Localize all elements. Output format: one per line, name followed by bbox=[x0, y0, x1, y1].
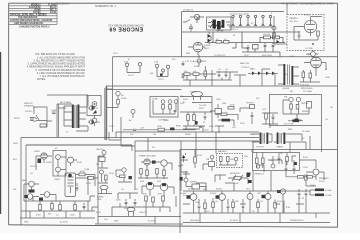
svg-text:DEPTH: DEPTH bbox=[301, 103, 308, 105]
svg-text:470K: 470K bbox=[36, 215, 41, 217]
wire power tube drops bbox=[118, 193, 163, 207]
svg-text:BRN: BRN bbox=[288, 129, 293, 131]
wire m links bbox=[183, 112, 205, 126]
resistor Rb2 bbox=[146, 170, 149, 176]
tube V15 bbox=[280, 189, 285, 194]
svg-text:150 150: 150 150 bbox=[263, 34, 271, 36]
capacitor dark bar C51 bbox=[293, 120, 300, 123]
wire OT right leads bbox=[292, 134, 306, 150]
power tube top cap bbox=[68, 174, 72, 178]
svg-text:450V: 450V bbox=[183, 99, 188, 101]
svg-text:100K 1K: 100K 1K bbox=[139, 212, 147, 214]
node blob r2 bbox=[294, 162, 297, 165]
svg-text:470K: 470K bbox=[80, 171, 85, 173]
transformer T1 core bbox=[75, 105, 76, 128]
node blob v14 bbox=[262, 195, 266, 198]
svg-text:22K: 22K bbox=[235, 201, 239, 203]
svg-text:1M VOL: 1M VOL bbox=[30, 166, 38, 168]
svg-text:SPEAKER: SPEAKER bbox=[24, 105, 34, 108]
resistor R50 bbox=[317, 31, 320, 36]
wire lamp pair1 link bbox=[127, 69, 140, 73]
svg-text:250K: 250K bbox=[77, 162, 82, 164]
svg-text:6L6GC: 6L6GC bbox=[210, 193, 217, 195]
svg-text:.022: .022 bbox=[262, 109, 267, 111]
svg-text:6.8K: 6.8K bbox=[140, 181, 145, 183]
svg-text:CHOKE: CHOKE bbox=[282, 88, 290, 90]
tube V4 right bbox=[300, 57, 326, 82]
svg-text:10%: 10% bbox=[244, 156, 248, 158]
svg-text:B+ 300V: B+ 300V bbox=[60, 222, 68, 224]
wire rm10 bbox=[194, 150, 196, 169]
svg-text:VIBRATO: VIBRATO bbox=[289, 17, 298, 20]
pot arrow dark bbox=[93, 110, 97, 114]
svg-text:220K: 220K bbox=[116, 200, 121, 202]
wire connector links bbox=[94, 106, 96, 126]
wire V5 leads bbox=[188, 47, 205, 55]
svg-text:6L6GC: 6L6GC bbox=[216, 189, 223, 191]
svg-text:1M: 1M bbox=[48, 214, 51, 216]
svg-text:470K: 470K bbox=[303, 157, 308, 159]
tube V1B bbox=[68, 157, 74, 163]
tube V10 power bbox=[160, 183, 168, 191]
labels input bbox=[14, 101, 100, 134]
wire m6 links bbox=[262, 113, 278, 128]
tube V16 bbox=[313, 169, 319, 175]
wire shield lines bbox=[57, 104, 72, 137]
svg-text:6.8: 6.8 bbox=[285, 74, 289, 76]
wire blob leads bbox=[292, 119, 302, 121]
extra comps tube row bbox=[196, 171, 306, 213]
wire preamp wiring bbox=[283, 100, 309, 119]
resistor Rc1 bbox=[162, 105, 165, 110]
svg-text:2.2M: 2.2M bbox=[109, 126, 114, 128]
svg-text:1W: 1W bbox=[153, 134, 156, 136]
lamp s2 bbox=[56, 167, 61, 172]
svg-text:15K: 15K bbox=[230, 159, 234, 161]
wire B+ top rail bbox=[182, 11, 285, 13]
speaker jack dark 1 bbox=[315, 189, 324, 192]
resistor R30 bbox=[184, 73, 190, 76]
wire chassis bottom-left vertical bbox=[20, 138, 22, 225]
svg-text:BIAS: BIAS bbox=[250, 68, 255, 71]
node dot bbox=[312, 43, 314, 45]
svg-text:500K: 500K bbox=[234, 183, 239, 185]
wire divider vertical right bbox=[251, 150, 253, 153]
resistor R41 bbox=[224, 41, 230, 44]
wire tube drops bbox=[194, 198, 285, 213]
resistor R60 bbox=[117, 100, 120, 105]
resistor Rm10 bbox=[194, 157, 197, 163]
svg-text:6.3V: 6.3V bbox=[290, 56, 295, 58]
svg-text:BLK: BLK bbox=[13, 159, 17, 161]
winding primary bbox=[283, 64, 285, 85]
potentiometer arrow 1 bbox=[232, 175, 236, 181]
wire osc wiring bbox=[294, 27, 318, 41]
dark mark m17 bbox=[247, 173, 250, 178]
tube V7 small bbox=[311, 52, 316, 57]
lamp L2 col bbox=[100, 170, 104, 174]
wire ps mid links bbox=[232, 32, 248, 49]
svg-text:BIAS ADJ: BIAS ADJ bbox=[218, 150, 227, 153]
capacitor C29 bbox=[189, 24, 193, 31]
transformer T4 primary bbox=[277, 133, 279, 145]
wire bottom wiring bbox=[24, 156, 90, 201]
capacitor Cv15a bbox=[285, 165, 288, 172]
capacitor C26 bbox=[182, 61, 185, 66]
svg-text:BLU: BLU bbox=[250, 134, 254, 136]
svg-text:47K: 47K bbox=[256, 98, 260, 100]
capacitor Cr1 bbox=[298, 189, 301, 197]
capacitor Cr2 bbox=[305, 189, 308, 197]
svg-text:500PF: 500PF bbox=[46, 162, 53, 164]
border frame bottom bbox=[9, 225, 338, 227]
svg-text:SW: SW bbox=[96, 164, 99, 166]
power tube internals bbox=[68, 174, 74, 193]
wire left of box bbox=[274, 16, 287, 44]
wire socket wiring bbox=[58, 157, 66, 176]
wire pot links bbox=[228, 178, 248, 184]
wire tubes rail bbox=[183, 191, 310, 198]
resistor Rb1 bbox=[140, 169, 143, 175]
lamp NE2 bbox=[272, 26, 276, 30]
wire nested corner 1 bbox=[116, 132, 259, 138]
pot VR1 arrow bbox=[36, 115, 39, 120]
svg-text:X: X bbox=[271, 13, 273, 15]
resistor Rcol bbox=[105, 175, 108, 180]
svg-text:OUTPUT: OUTPUT bbox=[256, 147, 265, 149]
svg-text:475V: 475V bbox=[244, 55, 249, 57]
wire lamp pair2 link bbox=[157, 70, 168, 77]
tube V6 internals bbox=[306, 20, 315, 32]
labels preamp box bbox=[284, 97, 309, 126]
svg-text:INTENSITY: INTENSITY bbox=[230, 173, 241, 175]
svg-text:6.3V: 6.3V bbox=[124, 62, 129, 64]
node blob bbox=[195, 121, 198, 125]
resistor R1 bbox=[40, 124, 47, 127]
labels mid lower bbox=[180, 155, 241, 195]
svg-text:6.3V TO ALL HEATERS: 6.3V TO ALL HEATERS bbox=[185, 60, 207, 63]
svg-text:470K: 470K bbox=[157, 126, 162, 128]
wire lower links bbox=[183, 126, 224, 133]
resistor Rb4 bbox=[163, 170, 166, 176]
fuse F1 holder bbox=[116, 91, 120, 95]
svg-text:20MFD: 20MFD bbox=[190, 92, 197, 94]
wire T1 leads left bbox=[64, 106, 72, 126]
svg-text:YEL: YEL bbox=[13, 189, 18, 191]
resistor R70 bbox=[221, 113, 227, 116]
svg-text:5U4GB: 5U4GB bbox=[204, 45, 211, 47]
svg-text:A PHOTOFACT STANDARD: A PHOTOFACT STANDARD bbox=[281, 3, 313, 6]
component row: dark blob bbox=[170, 128, 175, 131]
svg-text:.047: .047 bbox=[140, 128, 145, 130]
labels mid boxes bbox=[121, 94, 169, 122]
diode D1b bbox=[208, 39, 211, 43]
lamp r2 bbox=[234, 157, 238, 161]
wire row bbox=[215, 114, 238, 120]
diode D5 bbox=[277, 40, 280, 43]
tube V5 rectifier bbox=[193, 42, 203, 52]
labels bottom center bbox=[96, 149, 162, 223]
capacitor Ct1 bbox=[198, 203, 201, 210]
tube V2C bbox=[44, 192, 50, 198]
border frame right bbox=[337, 3, 339, 227]
wire crossing drops bbox=[148, 132, 310, 157]
tube V5 internals bbox=[195, 42, 201, 49]
tube V8A triode bbox=[144, 159, 150, 165]
capacitor C32 bbox=[264, 43, 267, 49]
capacitor C7 bbox=[76, 183, 79, 191]
transformer T1 secondary bbox=[77, 105, 79, 129]
transformer T4 secondary bbox=[283, 133, 285, 145]
svg-text:CHASSIS PHOTOS PAGE 2: CHASSIS PHOTOS PAGE 2 bbox=[19, 25, 50, 28]
svg-text:SPEED: SPEED bbox=[302, 111, 309, 113]
box preamp enclosure bbox=[270, 95, 322, 126]
wire sub box bbox=[219, 161, 236, 165]
svg-text:16 OHM: 16 OHM bbox=[302, 131, 310, 133]
svg-text:470K: 470K bbox=[277, 201, 282, 203]
dashed sub box bbox=[217, 154, 243, 168]
svg-text:ERIE: ERIE bbox=[176, 126, 181, 128]
mid right tube section (x 300-330, y 150-190) bbox=[305, 169, 324, 186]
svg-text:OUT: OUT bbox=[246, 189, 251, 191]
wire dm1 bbox=[184, 153, 186, 162]
notes list bbox=[27, 53, 86, 81]
labels bottom left bbox=[22, 148, 91, 224]
svg-text:V6 .05: V6 .05 bbox=[304, 15, 311, 17]
diode Dm1 bbox=[182, 155, 186, 158]
svg-text:470K: 470K bbox=[230, 105, 235, 107]
resistor Rb3 bbox=[156, 169, 159, 175]
svg-text:OUT: OUT bbox=[257, 193, 262, 195]
svg-text:.01 470K: .01 470K bbox=[305, 48, 314, 50]
lamp small bbox=[131, 110, 135, 114]
svg-text:6L6GC: 6L6GC bbox=[188, 189, 195, 191]
capacitor C30C bbox=[247, 15, 250, 26]
wire drops to rail86 bbox=[190, 75, 275, 86]
component box p3 bbox=[307, 102, 312, 109]
wire section divider bbox=[180, 150, 338, 234]
wire m5 link bbox=[240, 108, 252, 124]
wire res drops bbox=[138, 174, 168, 179]
svg-text:47: 47 bbox=[203, 122, 206, 124]
svg-text:PHASE INV 12AU7: PHASE INV 12AU7 bbox=[139, 155, 157, 158]
lamp c1 bbox=[161, 100, 165, 104]
wire to preamp bbox=[47, 95, 89, 131]
svg-text:GND: GND bbox=[114, 221, 119, 223]
svg-text:SCHEMATIC NO. 1: SCHEMATIC NO. 1 bbox=[95, 5, 116, 8]
svg-text:PLUG: PLUG bbox=[319, 181, 325, 183]
wire lamp drop bbox=[132, 114, 134, 119]
svg-text:470K: 470K bbox=[96, 212, 101, 214]
capacitor C30E bbox=[262, 15, 265, 26]
lamp c2 bbox=[168, 100, 172, 104]
capacitor C1 bbox=[52, 112, 56, 113]
wire lower rails bbox=[20, 176, 95, 218]
svg-text:47: 47 bbox=[128, 59, 131, 61]
svg-text:470K: 470K bbox=[197, 155, 202, 157]
wire heater rail2 bbox=[106, 89, 182, 91]
wire power tube leads bbox=[142, 186, 174, 196]
wire ps drops bbox=[242, 48, 280, 57]
wire bottom rail right bbox=[183, 204, 330, 223]
svg-text:VC: VC bbox=[302, 138, 305, 140]
title block table bbox=[9, 3, 57, 24]
node blob V8 bbox=[152, 161, 156, 164]
resistor R45 bbox=[302, 72, 305, 78]
wire link row bbox=[216, 72, 246, 78]
tube V12 bbox=[219, 194, 226, 201]
tube V2B bbox=[27, 194, 33, 200]
svg-text:6V6: 6V6 bbox=[158, 194, 162, 196]
component box ps1 bbox=[253, 45, 259, 50]
wire m16 links bbox=[183, 171, 206, 191]
svg-text:TO V1B: TO V1B bbox=[199, 105, 207, 107]
svg-text:6V6: 6V6 bbox=[143, 194, 147, 196]
wire c51 leads bbox=[288, 120, 303, 122]
transformer T1 primary bbox=[72, 105, 74, 129]
resistor Rr1 bbox=[220, 157, 223, 162]
wire V1B leads bbox=[71, 160, 78, 166]
resistor R10 bbox=[59, 205, 62, 211]
svg-text:6V6GT: 6V6GT bbox=[185, 134, 192, 136]
svg-text:ON-OFF: ON-OFF bbox=[216, 30, 224, 32]
lamp PL3 bbox=[155, 64, 158, 70]
lamp b1 bbox=[122, 168, 126, 172]
wire top rail bbox=[26, 145, 132, 151]
lamp s1 bbox=[56, 155, 61, 160]
wire L1 stem bbox=[103, 155, 105, 158]
svg-text:SW: SW bbox=[150, 73, 153, 75]
tube V5A rectifier small bbox=[194, 14, 199, 19]
box twin socket bbox=[53, 151, 66, 177]
svg-text:.02: .02 bbox=[121, 189, 125, 191]
wire C50 leads bbox=[218, 120, 234, 126]
svg-text:7. ALL VOLTAGES SHOWN POSITIVE: 7. ALL VOLTAGES SHOWN POSITIVE DC bbox=[39, 75, 85, 78]
wire long rail y141 bbox=[135, 141, 259, 151]
svg-text:12AX7: 12AX7 bbox=[34, 150, 41, 153]
wire feed vertical bbox=[286, 3, 288, 14]
capacitor dark C5 bbox=[29, 190, 35, 193]
svg-text:OSC 6C4: OSC 6C4 bbox=[289, 21, 298, 23]
svg-text:FOOT SW: FOOT SW bbox=[284, 124, 293, 126]
wire fuse leads bbox=[198, 55, 200, 66]
svg-text:VIB: VIB bbox=[284, 97, 288, 99]
lamp PL4 bbox=[166, 65, 169, 71]
capacitor Ct3 bbox=[242, 203, 245, 210]
node blob bus bbox=[180, 177, 183, 181]
wire rail bottom of PS bbox=[113, 56, 338, 58]
resistor Rr5 bbox=[232, 202, 235, 208]
svg-text:BIAS -52V: BIAS -52V bbox=[240, 62, 250, 65]
wire T1 leads right bbox=[79, 107, 88, 126]
component box m11 bbox=[209, 162, 215, 167]
svg-text:.02: .02 bbox=[135, 189, 139, 191]
svg-text:GND: GND bbox=[24, 222, 29, 224]
capacitor Ct2 bbox=[227, 203, 230, 210]
border frame top bbox=[9, 2, 338, 4]
svg-text:T1: T1 bbox=[66, 132, 69, 134]
svg-text:TM-15008-A: TM-15008-A bbox=[56, 2, 70, 5]
potentiometer arrow 2 bbox=[239, 175, 243, 181]
svg-text:220K: 220K bbox=[310, 185, 315, 187]
wire b links bbox=[116, 170, 132, 182]
component row: capacitor2 bbox=[199, 127, 202, 128]
wire fuse drop bbox=[107, 96, 118, 108]
wire rail mid bbox=[182, 31, 300, 33]
wire bridge links bbox=[248, 69, 278, 80]
wire rail y89 stub bbox=[106, 88, 113, 90]
svg-text:.05: .05 bbox=[225, 69, 229, 71]
capacitor dark blob bbox=[295, 119, 299, 122]
node blob v11 bbox=[187, 195, 191, 198]
connector circle bottom bbox=[92, 118, 97, 123]
tube V4 internals bbox=[312, 57, 320, 70]
svg-text:330K: 330K bbox=[209, 126, 214, 128]
svg-text:.05: .05 bbox=[218, 69, 222, 71]
wire V2 leads bbox=[24, 184, 39, 201]
svg-text:40 40 20 20 10 450V: 40 40 20 20 10 450V bbox=[230, 14, 249, 16]
wire can legs col bbox=[98, 189, 112, 193]
resistor Rv15 bbox=[298, 176, 304, 179]
svg-text:8 OHM: 8 OHM bbox=[325, 190, 332, 192]
svg-text:.05 .05: .05 .05 bbox=[298, 198, 305, 200]
component row y130: capacitor bbox=[133, 129, 136, 130]
connector marks bbox=[94, 103, 96, 105]
nested chassis corner lines bbox=[21, 117, 310, 225]
resistor Rp2 bbox=[296, 105, 299, 110]
resistor Rb6 bbox=[145, 196, 148, 201]
scattered value labels for texture bbox=[13, 13, 333, 221]
svg-text:TREMOLO: TREMOLO bbox=[254, 174, 264, 176]
wire V5A stem bbox=[190, 17, 204, 23]
resistor R32 bbox=[204, 71, 207, 76]
labels bottom right bbox=[188, 150, 332, 222]
wire V4 bottom bbox=[300, 70, 320, 82]
wire center rails bbox=[98, 151, 180, 224]
component box m2 bbox=[215, 109, 222, 114]
svg-text:2A: 2A bbox=[121, 94, 124, 97]
capacitor C27 bbox=[218, 71, 221, 78]
wire mid rails bbox=[180, 97, 212, 133]
svg-text:COND: COND bbox=[51, 110, 57, 112]
wire right column bbox=[90, 196, 98, 211]
svg-text:40: 40 bbox=[233, 35, 236, 37]
svg-text:120V: 120V bbox=[109, 173, 114, 175]
resistor Rr6 bbox=[257, 202, 260, 208]
connector dot P1 fill bbox=[92, 106, 94, 110]
resistor Rv16 bbox=[307, 176, 313, 179]
svg-text:.05: .05 bbox=[215, 201, 219, 203]
resistor Rb7 bbox=[152, 197, 155, 202]
box bottom right enclosure bbox=[253, 153, 300, 171]
svg-text:TO PIN 8 V5: TO PIN 8 V5 bbox=[214, 55, 226, 57]
box speaker relay bbox=[87, 96, 101, 116]
resistor R8 bbox=[39, 205, 42, 211]
wire inside panel bbox=[153, 100, 176, 114]
labels lamps bbox=[124, 62, 165, 82]
tube V11 bbox=[190, 194, 197, 201]
capacitor C33 bbox=[272, 43, 275, 49]
svg-text:RECT: RECT bbox=[204, 48, 210, 50]
component row: wire bbox=[123, 126, 203, 132]
svg-text:PHONO: PHONO bbox=[25, 111, 33, 113]
svg-text:100K: 100K bbox=[325, 77, 330, 79]
capacitor C30D bbox=[254, 15, 257, 26]
transformer T3 primary bbox=[260, 133, 262, 145]
tube V9 power bbox=[146, 182, 154, 190]
resistor R6 bbox=[88, 177, 94, 180]
svg-text:8H: 8H bbox=[290, 91, 293, 93]
